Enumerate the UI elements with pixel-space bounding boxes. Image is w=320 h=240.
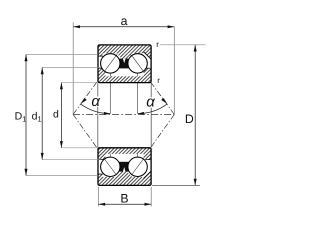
dimension a extension right <box>173 27 175 115</box>
D bottom extension <box>152 184 200 186</box>
contact line L2 lower-left <box>73 114 118 178</box>
D1 extension bottom <box>26 175 98 177</box>
dimension line D1 <box>25 55 27 176</box>
dimension line B <box>99 203 152 205</box>
outline upper section <box>98 45 151 83</box>
B extension left <box>98 187 100 207</box>
ball plane line lower-left <box>109 148 111 177</box>
ball upper-left <box>101 54 120 73</box>
alpha arc right <box>138 104 168 114</box>
contact line through upper-right ball <box>132 56 143 70</box>
inner ring upper section <box>98 68 151 82</box>
ball lower-left <box>101 157 120 176</box>
dimension line D <box>194 45 196 186</box>
D1 extension top <box>26 54 98 56</box>
svg-text:D: D <box>185 112 194 126</box>
contact line L3 upper-right <box>129 52 175 114</box>
side face line left <box>97 83 99 147</box>
dimension line d1 <box>41 68 43 160</box>
contact line through upper-left ball <box>105 56 116 70</box>
d1 extension bottom <box>42 159 101 161</box>
cage upper <box>117 59 131 69</box>
svg-text:B: B <box>120 192 128 206</box>
svg-text:r: r <box>157 76 160 85</box>
svg-text:a: a <box>121 14 128 28</box>
d1 extension top <box>42 67 101 69</box>
ball plane line upper-left <box>109 54 111 114</box>
contact line through lower-left ball <box>105 160 116 175</box>
alpha arc left <box>81 104 111 114</box>
svg-text:r: r <box>156 40 159 49</box>
axis line <box>73 113 174 115</box>
ball lower-right <box>128 157 147 176</box>
svg-text:d: d <box>53 109 59 121</box>
side face line right <box>150 83 152 147</box>
contact line L1 upper-left <box>73 52 119 114</box>
label alpha left <box>90 96 101 106</box>
dimension line a <box>73 26 174 28</box>
contact line L4 lower-right <box>129 114 174 178</box>
d extension top <box>61 82 97 84</box>
dimension a extension left <box>72 22 74 114</box>
ball upper-right <box>128 54 147 73</box>
outline lower section <box>98 148 151 186</box>
outer ring lower section <box>98 169 151 186</box>
contact line through lower-right ball <box>132 160 143 175</box>
outer ring upper section <box>98 45 151 62</box>
svg-text:α: α <box>146 94 155 111</box>
B extension right <box>150 187 152 207</box>
inner ring lower section <box>98 148 151 160</box>
d extension bottom <box>61 147 97 149</box>
ball plane line upper-right <box>137 54 139 114</box>
ball plane line lower-right <box>137 148 139 177</box>
extension line r top (D top extension) <box>160 44 206 46</box>
svg-text:α: α <box>91 93 100 110</box>
dimension line d <box>60 83 62 148</box>
label alpha right <box>145 97 156 107</box>
cage lower <box>117 162 131 172</box>
